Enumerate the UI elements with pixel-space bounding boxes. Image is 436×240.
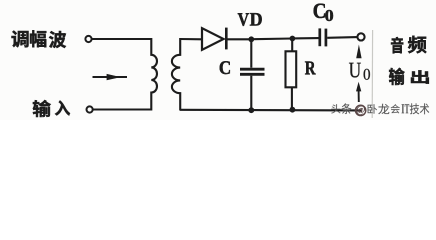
node C junction (bottom of C) bbox=[248, 107, 254, 113]
watermark 头条@卧龙会IT技术 bbox=[331, 103, 429, 115]
voltage arrow U0 lower head bbox=[356, 82, 361, 102]
label C0 bbox=[314, 4, 333, 21]
resistor R bbox=[286, 39, 297, 110]
node A junction (top of C) bbox=[248, 36, 254, 42]
label R bbox=[305, 61, 316, 74]
wire input bottom bbox=[93, 108, 152, 110]
wire node B to C0 bbox=[292, 37, 318, 39]
output terminal top bbox=[357, 33, 364, 40]
wire diode to node A bbox=[226, 38, 251, 40]
wire input top bbox=[92, 38, 152, 40]
label 调幅波 (AM wave input) bbox=[12, 30, 67, 48]
label C bbox=[220, 61, 230, 74]
wire bottom secondary bbox=[180, 109, 361, 112]
signal direction arrow bbox=[93, 74, 128, 80]
label 音频 (audio) bbox=[391, 36, 426, 54]
node B junction (top of R) bbox=[290, 36, 296, 42]
label 输入 (input) bbox=[33, 100, 70, 117]
wire C0 to output terminal bbox=[327, 36, 357, 39]
input terminal top bbox=[85, 36, 91, 42]
diode VD bbox=[202, 28, 226, 50]
wire secondary top bbox=[180, 38, 203, 40]
voltage arrow U0 upper head bbox=[356, 45, 361, 59]
transformer secondary winding bbox=[172, 38, 180, 111]
transformer primary winding bbox=[151, 38, 157, 111]
label U0 bbox=[349, 63, 370, 80]
node D junction (bottom of R) bbox=[290, 107, 296, 113]
capacitor C bbox=[240, 39, 265, 110]
wire node A to node B bbox=[251, 37, 292, 40]
label 输出 (output) bbox=[389, 68, 429, 85]
input terminal bottom bbox=[87, 106, 93, 112]
label VD bbox=[238, 13, 262, 26]
capacitor C0 bbox=[320, 28, 326, 46]
